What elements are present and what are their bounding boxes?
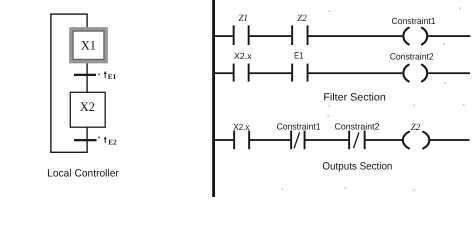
svg-text:E1: E1	[294, 51, 304, 61]
svg-text:X2.x: X2.x	[234, 51, 252, 61]
svg-text:Constraint1: Constraint1	[277, 122, 321, 132]
svg-text:Local Controller: Local Controller	[47, 167, 119, 179]
svg-text:X2: X2	[80, 99, 95, 114]
svg-text:Filter Section: Filter Section	[323, 91, 386, 103]
svg-text:Z1: Z1	[238, 14, 248, 24]
svg-text:E2: E2	[108, 138, 117, 146]
svg-text:Z2: Z2	[297, 14, 307, 24]
svg-text:Outputs Section: Outputs Section	[322, 161, 392, 173]
svg-text:X1: X1	[81, 37, 96, 52]
svg-text:E1: E1	[108, 73, 117, 81]
svg-text:Constraint2: Constraint2	[335, 122, 380, 132]
svg-text:Z2: Z2	[411, 123, 421, 133]
svg-text:Constraint2: Constraint2	[390, 51, 434, 61]
svg-text:X2.x: X2.x	[233, 122, 249, 132]
svg-text:Constraint1: Constraint1	[392, 16, 436, 26]
